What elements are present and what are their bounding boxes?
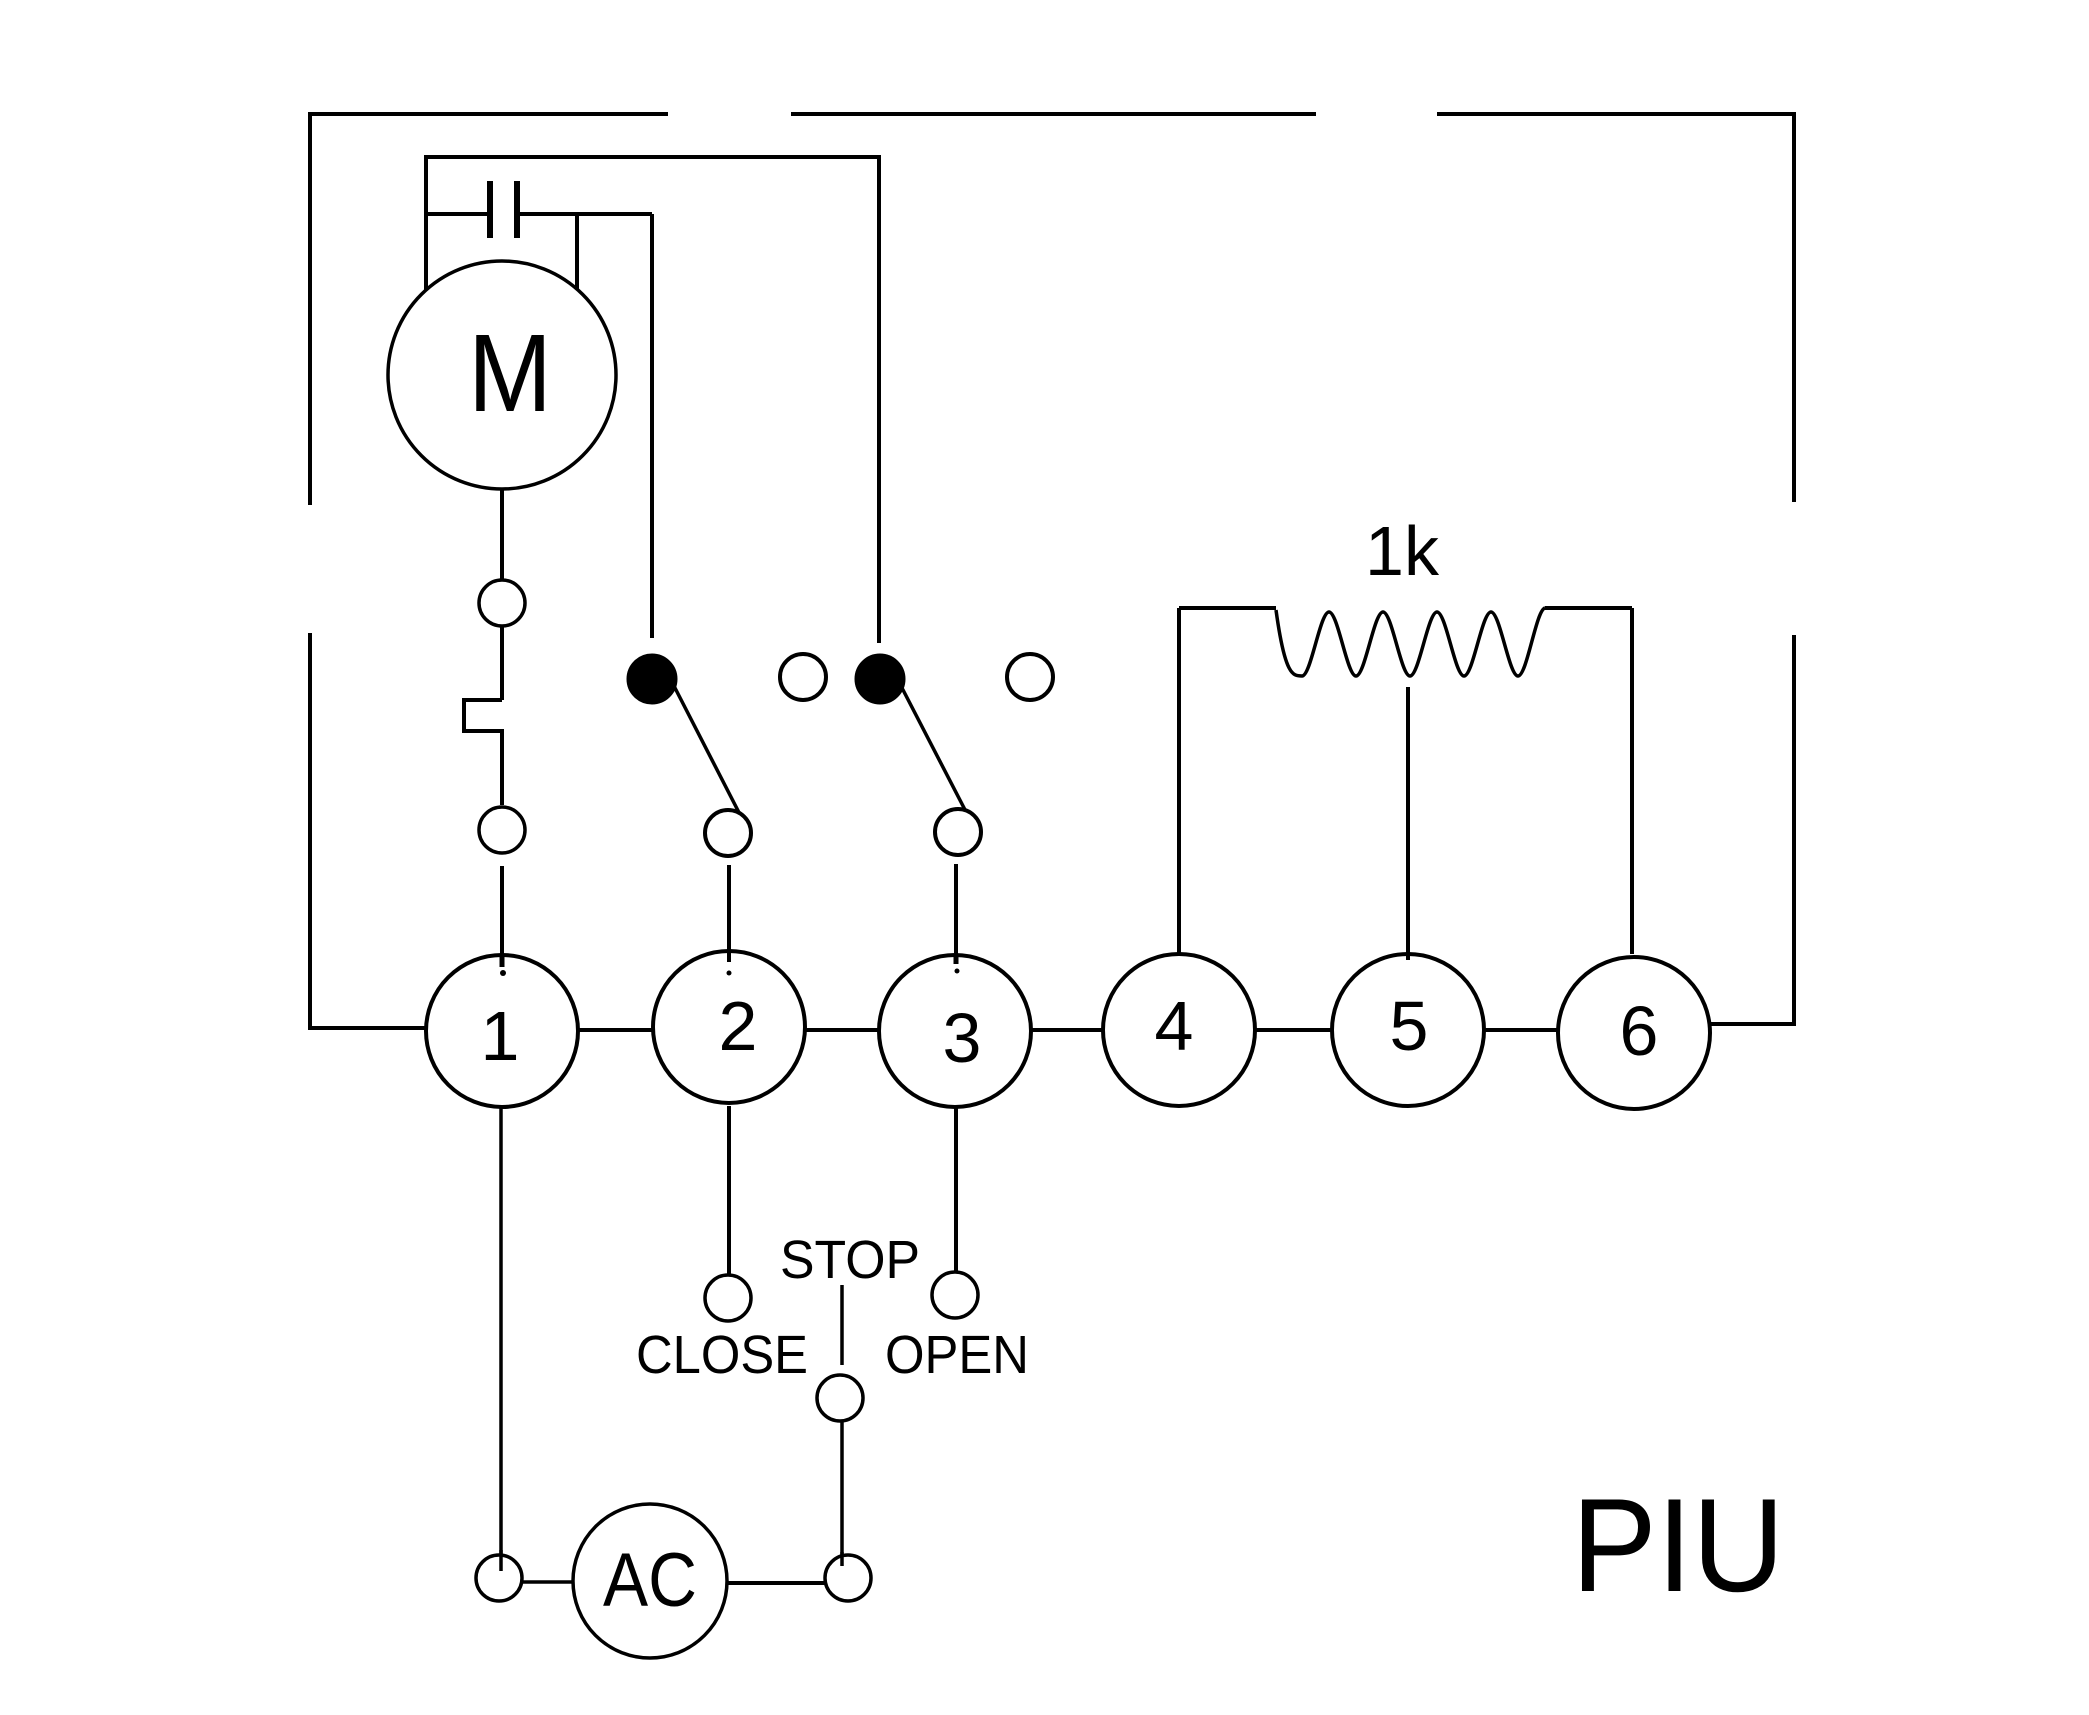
svg-text:1: 1	[481, 997, 520, 1075]
svg-text:CLOSE: CLOSE	[636, 1325, 808, 1385]
svg-text:1k: 1k	[1365, 512, 1440, 590]
svg-text:AC: AC	[603, 1538, 697, 1623]
svg-text:5: 5	[1390, 987, 1429, 1065]
svg-text:M: M	[468, 312, 552, 435]
svg-text:OPEN: OPEN	[885, 1325, 1029, 1385]
svg-text:4: 4	[1155, 987, 1194, 1065]
svg-text:6: 6	[1620, 992, 1659, 1070]
svg-text:3: 3	[943, 999, 982, 1077]
svg-text:2: 2	[719, 987, 758, 1065]
svg-text:STOP: STOP	[780, 1230, 920, 1290]
svg-text:PIU: PIU	[1572, 1472, 1785, 1620]
